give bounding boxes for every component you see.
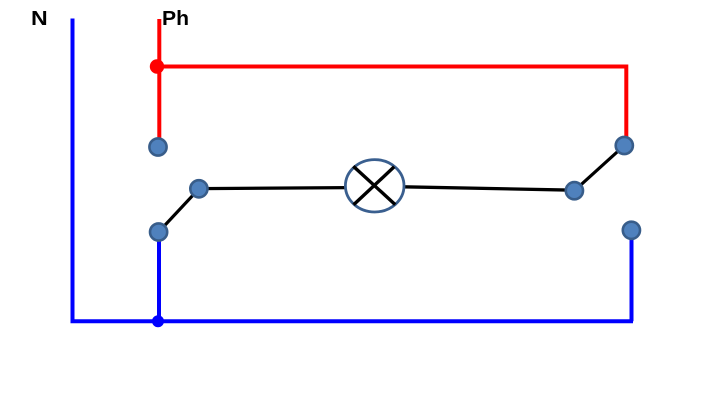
svg-text:Ph: Ph	[162, 8, 189, 30]
svg-text:N: N	[31, 8, 48, 30]
